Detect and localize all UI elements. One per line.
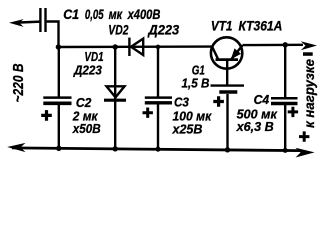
svg-text:КТ361А: КТ361А	[239, 18, 283, 33]
plus sign output bottom	[299, 131, 309, 141]
transistor VT1 emitter diagonal with arrow	[231, 45, 243, 59]
plus sign G1	[213, 96, 224, 107]
capacitor C4	[271, 97, 298, 100]
minus sign output top	[303, 52, 313, 56]
svg-text:С4: С4	[254, 92, 270, 107]
arrow: AC input top (points left)	[9, 19, 24, 27]
svg-text:VT1: VT1	[211, 18, 233, 33]
wire: C3 branch top	[157, 47, 159, 97]
node A junction dot	[56, 44, 61, 49]
plus sign C4	[288, 107, 298, 117]
diode VD2 (on top bus, pointing left)	[128, 38, 130, 56]
svg-text:0,05: 0,05	[85, 7, 104, 22]
transistor VT1 circle	[211, 37, 242, 68]
svg-text:~220 В: ~220 В	[10, 63, 27, 102]
wire: AC input top lead	[14, 22, 40, 23]
diode VD1 (pointing down)	[107, 86, 125, 97]
wire: C3 to bottom bus	[157, 104, 159, 149]
wire: C1 to node A	[47, 22, 59, 48]
battery G1 long plate	[211, 84, 245, 86]
wire: emitter rail to output	[243, 44, 303, 47]
capacitor C3	[145, 96, 172, 99]
wire: C4 branch top	[284, 45, 286, 98]
plus sign C3	[143, 108, 153, 118]
wire: C2 to bottom bus	[58, 105, 60, 149]
svg-text:VD2: VD2	[108, 22, 129, 37]
transistor VT1 base bar	[216, 58, 239, 61]
wire: top bus from node A to transistor	[57, 45, 213, 48]
svg-text:1,5 В: 1,5 В	[182, 75, 210, 90]
svg-text:х25В: х25В	[172, 122, 203, 137]
plus sign C2	[41, 110, 52, 121]
wire: node A down to C2	[58, 47, 60, 97]
arrow: AC input bottom (points left)	[7, 143, 25, 152]
svg-text:Д223: Д223	[73, 62, 102, 77]
svg-text:к нагрузке: к нагрузке	[301, 59, 317, 128]
junction dot VD1 top	[113, 44, 118, 49]
svg-text:х6,3 В: х6,3 В	[236, 119, 274, 134]
wire: bottom bus	[12, 148, 300, 151]
arrow: output bottom (points right)	[296, 148, 315, 158]
wire: VD1 branch vertical	[114, 47, 116, 149]
capacitor C1	[39, 8, 41, 32]
wire: base lead down to G1	[226, 60, 228, 86]
junction dots bottom bus	[56, 146, 61, 151]
svg-text:мк: мк	[109, 7, 124, 22]
junction dot C4 top	[283, 42, 288, 47]
arrow: output top (points right)	[301, 41, 317, 50]
transistor VT1 collector diagonal	[212, 47, 218, 60]
junction dot C3 top	[156, 45, 161, 50]
svg-text:С1: С1	[63, 7, 79, 22]
wire: C4 to bottom bus	[284, 105, 286, 151]
svg-text:Д223: Д223	[147, 22, 179, 37]
svg-text:х50В: х50В	[72, 121, 101, 136]
svg-text:х400В: х400В	[127, 7, 161, 22]
wire: G1 to bottom bus	[226, 94, 228, 150]
svg-text:С3: С3	[174, 95, 190, 110]
capacitor C2	[43, 96, 71, 99]
battery G1 short plate	[219, 90, 237, 93]
